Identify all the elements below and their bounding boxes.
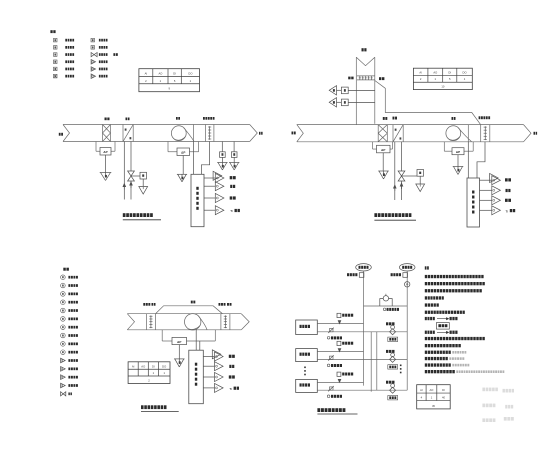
load branch 1 control valve (390, 329, 396, 335)
legend A row 4 left symbol (54, 60, 58, 64)
DDC3 output triangle 1 (212, 350, 221, 359)
legend B row 15 label (68, 392, 69, 395)
water flow arrow right pipe AHU2 (400, 183, 403, 186)
note line 7 flow-signal diagram (425, 317, 427, 320)
legend B row 2 symbol (61, 283, 66, 288)
DDC controller U1 (191, 174, 204, 226)
note line 13 (425, 363, 427, 366)
chilled water pipe right upper (130, 142, 132, 172)
wire fan section to DDC2 (467, 142, 469, 178)
water flow arrow left pipe (123, 184, 126, 187)
return humidity AI triangle (329, 98, 336, 107)
wire PD5 to input (178, 345, 180, 359)
AHU2 outlet label (534, 132, 536, 135)
legend A row 2 left label (65, 46, 67, 49)
note line 4 (425, 296, 427, 299)
coil C2 label (393, 117, 395, 120)
chilled water pipe right upper AHU2 (401, 142, 403, 171)
legend A row 3 left symbol (54, 53, 58, 57)
filter F1 body (102, 125, 104, 142)
bypass connector pipe (364, 305, 408, 307)
AHU2 title (374, 213, 377, 217)
DDC1 output wire 3 (204, 197, 215, 199)
legend A row 2 right label (99, 46, 101, 49)
chiller 3 supply line (317, 381, 363, 383)
svg-text:AI: AI (145, 72, 148, 76)
load branch 2 control valve (390, 356, 396, 362)
EF dP sensor PD5 (161, 330, 163, 341)
humidifier H2 (480, 125, 482, 142)
note AHU box (436, 323, 449, 330)
svg-text:DO: DO (463, 71, 467, 75)
svg-text:AI: AI (132, 364, 135, 368)
valve FV-202 label (327, 364, 330, 367)
header ellipse distributor (399, 264, 415, 271)
intake damper D2 (357, 75, 375, 77)
legend A title (50, 30, 52, 33)
DDC3 output triangle 4 (215, 383, 224, 392)
title block faint text 4 (505, 405, 507, 409)
chiller 1 supply line (317, 323, 363, 325)
DDC1 output triangle 1 (213, 171, 222, 180)
legend B row 10 symbol (61, 350, 66, 355)
supply riser V1 (363, 271, 365, 386)
DDC2 output triangle 4 (492, 206, 501, 215)
coil C1 label (126, 118, 128, 121)
DDC1 output triangle 4 (215, 206, 224, 215)
points table T2 for air-handling unit (413, 68, 472, 89)
intake label (362, 48, 364, 51)
chilled water pipe left (123, 142, 125, 200)
note line 8 return-signal diagram (425, 331, 427, 334)
notes heading (425, 266, 427, 269)
legend A row 6 right label (99, 75, 101, 78)
filter F2 label (383, 117, 385, 120)
valve FV-302 flag (330, 387, 334, 390)
valve FV-102 flag (330, 329, 334, 332)
legend A row 4 left label (65, 60, 67, 63)
svg-text:DI: DI (442, 388, 445, 392)
svg-text:ΔP: ΔP (177, 340, 181, 344)
svg-text:45: 45 (432, 404, 435, 408)
title block faint text 3 (482, 404, 485, 408)
note line 5 (425, 303, 427, 306)
ellipsis on load loop (400, 365, 402, 367)
svg-text:AO: AO (141, 364, 145, 368)
wire actuator to AO (142, 179, 144, 187)
AI triangle PD5 (174, 358, 185, 360)
legend B row 4 symbol (61, 300, 66, 305)
svg-text:10: 10 (441, 85, 444, 89)
legend B row 1 label (68, 276, 70, 279)
water flow arrow left pipe AHU2 (394, 185, 397, 188)
legend A row 3 right symbol (91, 53, 94, 57)
AHU1 inlet chevron (63, 125, 70, 142)
legend B row 13 symbol (61, 375, 66, 380)
legend A row 5 left label (65, 68, 67, 71)
AI triangle PD3 (378, 170, 389, 172)
AHU1 duct top wall (63, 124, 250, 126)
wire humidifier to DDC1 (201, 142, 209, 175)
chiller plant title (317, 408, 320, 412)
legend B row 6 label (68, 318, 70, 321)
return temp sensor T box (341, 87, 348, 94)
points table T1 for fresh-air unit (139, 69, 200, 92)
flow arrow on supply line 2 (338, 349, 341, 352)
coil C1 (122, 125, 124, 142)
fan B2 label (452, 117, 454, 120)
load branch 3 control valve (390, 387, 396, 393)
wire to return humidity sensor (337, 101, 342, 103)
legend B row 8 label (68, 334, 70, 337)
valve VA1 actuator link (131, 175, 140, 177)
DDC2 output label 3 (505, 199, 508, 202)
note line 1 (425, 275, 427, 278)
ellipsis between chiller boxes (304, 367, 306, 369)
bypass valve label PAH-102 (383, 308, 386, 311)
wire PD3 to input (382, 153, 384, 171)
fan B1 (171, 126, 186, 141)
DDC3 output wire 1 (203, 356, 214, 358)
wire fan B3 to DDC3 (195, 330, 197, 350)
legend B row 15 symbol (61, 392, 64, 396)
EF roof label (191, 301, 193, 304)
EF fan B3 (185, 314, 201, 330)
wire T box to duct (348, 89, 375, 91)
EF inlet chevron (127, 314, 134, 330)
filter F2 body (377, 125, 379, 142)
wire actuator VA2 to AO (419, 176, 421, 184)
valve VA2 actuator link (402, 175, 418, 177)
svg-text:ΔP: ΔP (456, 150, 460, 154)
wire H to AI (233, 157, 235, 162)
damper D2 right label (379, 77, 381, 80)
svg-text:40: 40 (442, 396, 445, 400)
svg-text:T/: T/ (229, 387, 232, 391)
return humidity sensor H box (341, 99, 348, 106)
svg-text:AI: AI (420, 388, 423, 392)
valve FV-202 flag (330, 356, 334, 359)
svg-text:ΔP: ΔP (103, 150, 107, 154)
fan section partition AHU1 (192, 125, 194, 142)
legend A row 5 left symbol (54, 67, 58, 71)
valve VA1 actuator M (140, 172, 147, 179)
svg-text:DI: DI (152, 364, 155, 368)
AHU1 title (123, 213, 126, 217)
legend A row 4 right label (99, 60, 101, 63)
chiller 3 secondary line (317, 389, 407, 391)
svg-text:T/: T/ (506, 209, 509, 213)
legend B row 14 symbol (61, 383, 66, 388)
load branch 3 tag box (388, 396, 398, 400)
chiller box 2 (296, 349, 318, 362)
dP sensor PD2 across fan (167, 142, 169, 152)
legend A row 1 left symbol (54, 38, 58, 42)
wire to return temp sensor (337, 89, 342, 91)
legend B row 7 symbol (61, 325, 66, 330)
points table T3 exhaust fan (128, 362, 170, 384)
AO triangle valve VA2 (416, 184, 425, 192)
legend B row 2 label (68, 284, 70, 287)
legend B row 11 label (68, 359, 70, 362)
note line 6 (425, 311, 427, 314)
chilled water pipe left AHU2 (394, 142, 396, 200)
title block faint text 6 (504, 417, 507, 421)
flow arrow on supply line 1 (338, 321, 341, 324)
water flow arrow right pipe (130, 182, 133, 185)
dP sensor PD1 across filter (95, 142, 97, 152)
legend B row 1 symbol (61, 275, 66, 280)
temp sensor TE-202 (403, 273, 408, 278)
legend B row 9 symbol (61, 342, 66, 347)
note line 3 (425, 289, 427, 292)
flow switch FS-102 box (337, 313, 341, 317)
humidifier H1 label (203, 117, 205, 120)
AHU1 title underline (123, 219, 161, 221)
legend B row 14 label (68, 384, 70, 387)
fan B2 (446, 126, 461, 141)
legend A row 5 right label (99, 68, 101, 71)
title block faint text 2 (503, 389, 505, 393)
svg-text:AO: AO (433, 71, 437, 75)
load branch 3 label (386, 381, 388, 384)
AHU2 title underline (374, 219, 416, 221)
AHU1 inlet label (59, 133, 61, 136)
bypass valve body (383, 296, 388, 301)
DDC2 output label 1 (505, 178, 508, 181)
AHU2 duct bottom wall (297, 141, 524, 143)
AHU1 outlet label (259, 132, 261, 135)
note line 12 (425, 357, 427, 360)
legend B row 3 symbol (61, 292, 66, 297)
legend B row 9 label (68, 342, 70, 345)
note line 10 (425, 344, 427, 347)
DDC1 output label 1 (230, 176, 233, 179)
legend B row 5 label (68, 309, 70, 312)
supply temp sensor wire (221, 142, 223, 152)
damper D2 left label (348, 77, 350, 80)
DDC2 output wire 4 (480, 209, 492, 211)
legend A row 6 right symbol (91, 74, 95, 78)
intake V notch (356, 57, 375, 65)
flow switch FS-302 box (337, 372, 341, 376)
DDC3 output wire 3 (203, 376, 214, 378)
chilled water pipe right lower (130, 181, 132, 200)
sensor well on return riser (405, 282, 410, 287)
load branch 1 tag box (388, 337, 398, 341)
legend A row 1 left label (65, 39, 67, 42)
fan B1 label (176, 117, 178, 120)
AHU2 duct top wall (297, 124, 524, 126)
fresh air intake duct right wall (374, 57, 376, 124)
EF outlet arrow (241, 314, 249, 330)
EF casing roof (156, 306, 223, 314)
legend A row 2 right symbol (91, 46, 95, 50)
legend A row 6 left label (65, 75, 67, 78)
wire H box to duct (348, 101, 375, 103)
load branch 2 tag box (388, 365, 398, 369)
DDC1 output wire 1 (204, 177, 215, 179)
dP sensor PD3 across filter (372, 142, 374, 149)
chiller 2 secondary line (317, 358, 407, 360)
legend B row 6 symbol (61, 317, 66, 322)
legend B row 13 label (68, 376, 70, 379)
legend B row 5 symbol (61, 308, 66, 313)
DDC2 output triangle 2 (492, 186, 501, 195)
wire humidifier H2 to DDC2 (477, 142, 485, 178)
chiller 2 supply line (317, 351, 363, 353)
wire fan section to DDC1 (192, 142, 194, 175)
legend A row 1 right symbol (91, 38, 95, 42)
AI triangle PD1 (100, 172, 112, 174)
legend B row 4 label (68, 301, 70, 304)
DDC controller U3 (189, 350, 204, 404)
valve VA2 two-way (398, 171, 405, 176)
humidifier H2 label (479, 116, 481, 119)
EF left damper DL (145, 314, 147, 330)
legend A row 3 left label (65, 53, 67, 56)
DDC3 output label 3 (229, 375, 232, 378)
valve FV-102 label (327, 337, 330, 340)
flow switch FS-202 box (337, 341, 341, 345)
bypass valve loop (380, 299, 384, 306)
valve VA1 two-way (128, 171, 135, 176)
svg-text:DI: DI (173, 72, 176, 76)
dP sensor PD4 across fan (443, 142, 445, 151)
supply humidity sensor wire (233, 142, 235, 152)
DDC controller U2 (467, 178, 480, 227)
legend B row 7 label (68, 326, 70, 329)
svg-text:DI: DI (448, 71, 451, 75)
DDC1 output label 3 (230, 196, 233, 199)
DDC1 output wire 4 (204, 209, 215, 211)
svg-text:ΔP: ΔP (181, 151, 185, 155)
legend B row 3 label (68, 293, 70, 296)
return riser V2 (406, 271, 408, 390)
DDC2 output wire 1 (480, 179, 492, 181)
chiller 1 secondary line (317, 331, 407, 333)
coil C2 (392, 125, 394, 142)
wire PD2 to input (182, 156, 184, 175)
wire PD1 to input (105, 155, 107, 173)
EF title (141, 405, 144, 409)
AHU1 outlet arrow (250, 125, 258, 142)
note line 14 (425, 370, 427, 373)
DDC3 output label 1 (229, 355, 232, 358)
EF duct top wall (127, 313, 241, 315)
DDC1 output wire 2 (204, 185, 215, 187)
DDC1 output triangle 2 (215, 182, 224, 191)
points table T4 chiller plant (417, 385, 451, 409)
AHU2 inlet chevron (297, 125, 304, 142)
filter F1 label (105, 118, 107, 121)
legend A row 3 right label (99, 53, 101, 56)
AI triangle T supply (217, 162, 227, 164)
svg-text:AO: AO (430, 388, 434, 392)
DDC1 output label 2 (230, 185, 232, 188)
note line 2 (425, 282, 427, 285)
DDC3 output triangle 2 (215, 362, 224, 371)
legend A row 4 right symbol (91, 60, 95, 64)
return temp AI triangle (329, 86, 336, 95)
fresh air intake duct left wall (355, 57, 357, 124)
fan section partition AHU2 (467, 125, 469, 142)
valve VA2 actuator M (417, 170, 424, 177)
DDC3 output triangle 3 (215, 373, 224, 382)
legend A row 1 right label (99, 39, 101, 42)
temp sensor TE-201 (359, 273, 364, 278)
AHU1 duct bottom wall (63, 141, 250, 143)
EF duct bottom wall (127, 329, 241, 331)
note line 11 (425, 351, 427, 354)
title block faint text 1 (482, 388, 485, 392)
chiller box 1 (296, 320, 318, 335)
EF right damper label (219, 303, 221, 306)
header ellipse collector (356, 264, 372, 271)
load loop left vertical (376, 332, 378, 390)
AI triangle PD2 (177, 173, 187, 175)
humidifier H1 (204, 125, 206, 142)
note line 9 (425, 337, 427, 340)
supply temp sensor T (220, 152, 226, 158)
legend A row 6 left symbol (54, 74, 58, 78)
FV return collector V3 (370, 332, 372, 392)
chiller plant title underline (317, 413, 357, 415)
AI triangle PD4 (453, 166, 464, 168)
title block faint text 5 (482, 418, 485, 422)
DDC3 output label 2 (229, 365, 231, 368)
load branch 1 label (386, 322, 388, 325)
legend B row 12 symbol (61, 367, 66, 372)
AO triangle valve VA1 (139, 187, 148, 195)
wire PD4 to input (457, 155, 459, 167)
flow arrow on supply line 3 (338, 379, 341, 382)
svg-text:DO: DO (162, 364, 166, 368)
EF left damper label (143, 303, 145, 306)
DDC2 output triangle 3 (492, 196, 501, 205)
AI triangle H supply (229, 162, 239, 164)
legend B row 10 label (68, 351, 70, 354)
svg-text:T/: T/ (230, 209, 233, 213)
EF right damper DR (220, 314, 222, 330)
chiller box 3 (296, 379, 318, 392)
svg-text:AI: AI (419, 71, 422, 75)
load branch 2 label (386, 350, 388, 353)
DDC1 output triangle 3 (215, 194, 224, 203)
valve FV-302 label (327, 395, 330, 398)
AHU2 inlet label (292, 132, 294, 135)
EF title underline (141, 410, 179, 412)
svg-text:ΔP: ΔP (381, 148, 385, 152)
wire T to AI (221, 157, 223, 162)
svg-text:DO: DO (188, 72, 192, 76)
legend A row 5 right symbol (91, 67, 95, 71)
legend A row 2 left symbol (54, 46, 58, 50)
DDC2 output label 2 (506, 189, 508, 192)
svg-text:AO: AO (158, 72, 162, 76)
wire right damper to DDC3 (199, 341, 201, 350)
chilled water pipe right lower AHU2 (401, 181, 403, 200)
DDC2 output wire 2 (480, 189, 492, 191)
legend B row 11 symbol (61, 358, 66, 363)
casing transition outline (375, 81, 481, 125)
legend B row 12 label (68, 367, 70, 370)
DDC3 output wire 2 (203, 365, 214, 367)
DDC2 output triangle 1 (490, 174, 499, 183)
legend B title (63, 268, 66, 271)
DDC2 output wire 3 (480, 199, 492, 201)
AHU2 outlet arrow (524, 125, 532, 142)
